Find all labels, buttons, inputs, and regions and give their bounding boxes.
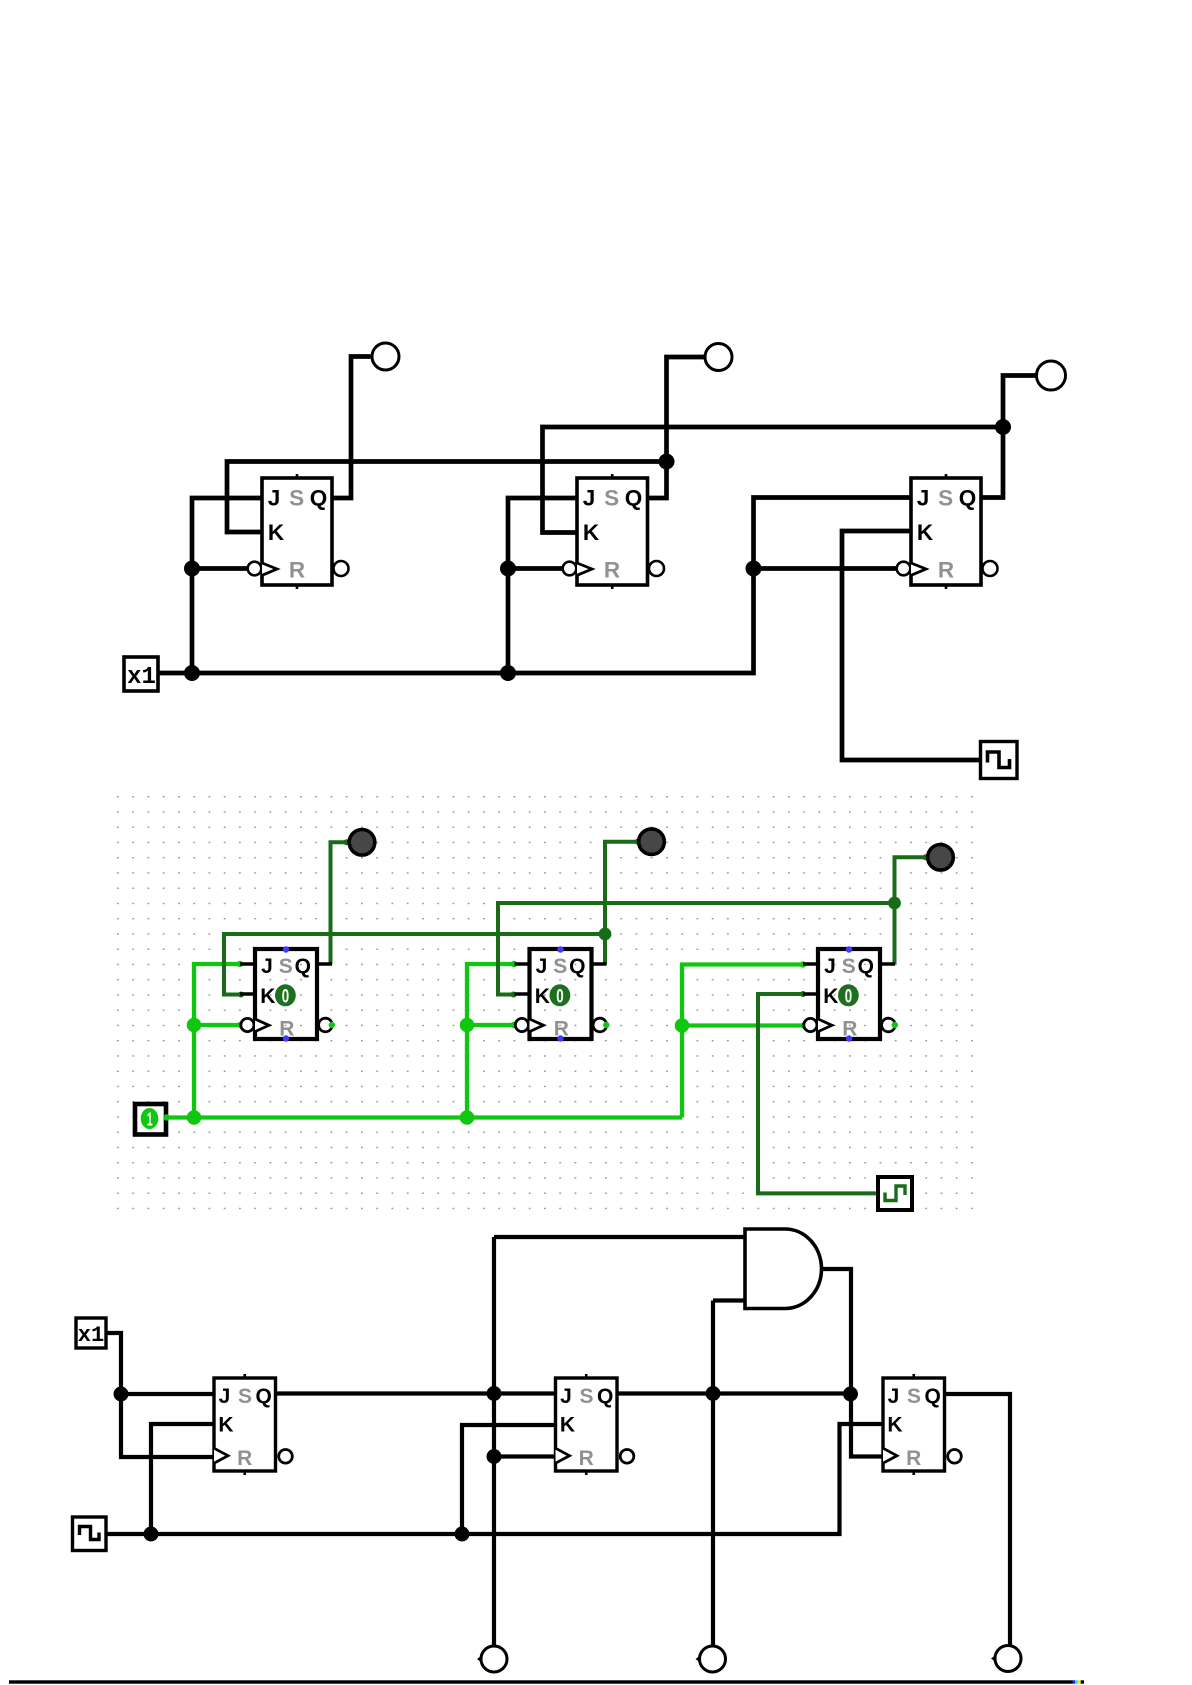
svg-text:S: S	[842, 955, 856, 978]
junction Q2m/K1m	[599, 928, 612, 941]
svg-text:R: R	[938, 558, 954, 583]
svg-text:K: K	[887, 1414, 902, 1437]
svg-text:K: K	[535, 985, 550, 1008]
input pin x1=1 (middle)	[135, 1104, 166, 1135]
wire J1 input (bottom)	[121, 1392, 214, 1396]
JK flip-flop FF1	[248, 474, 349, 589]
wire clock input FF2 (top)	[508, 566, 563, 571]
input pin x1 (bottom)	[76, 1318, 106, 1348]
junction clk1 branch	[184, 561, 200, 577]
clock source CLK (bottom)	[73, 1517, 107, 1551]
svg-text:K: K	[823, 985, 838, 1008]
svg-text:Q: Q	[625, 486, 643, 511]
output pin O2 (top)	[705, 344, 732, 371]
wire x1 rail to J3 (top)	[159, 498, 912, 674]
wire K1 to Q2 node (middle, value 0)	[224, 934, 605, 995]
wire Q2 up to output O2 and K1 junction (top)	[648, 357, 705, 498]
wire input rail value-1 (middle)	[166, 1115, 682, 1119]
JK flip-flop FF2	[563, 474, 664, 589]
wire AND output	[821, 1269, 883, 1457]
svg-text:R: R	[579, 1447, 594, 1470]
svg-text:S: S	[938, 486, 953, 511]
wire AND gate input 1 horizontal	[494, 1235, 745, 1239]
svg-text:R: R	[237, 1447, 252, 1470]
wire AND input 2 / output O2 vertical	[711, 1301, 715, 1646]
wire J1 feed (top)	[192, 498, 262, 673]
wire Q3 to output O3 (bottom)	[945, 1394, 1010, 1645]
svg-text:Q: Q	[256, 1385, 272, 1408]
JK flip-flop FF3m (middle, state 0)	[803, 946, 898, 1041]
wire K1 to Q2 node (top)	[227, 462, 667, 533]
junction clk3 branch	[746, 561, 762, 577]
wire Q2 node vertical (middle)	[605, 842, 638, 964]
svg-text:x1: x1	[78, 1323, 104, 1348]
svg-text:S: S	[579, 1385, 593, 1408]
junction K2/rail (bottom)	[455, 1527, 470, 1542]
output pin O3 (top)	[1037, 361, 1066, 390]
junction clk2m branch	[460, 1018, 475, 1033]
wire Q3 node vertical (middle)	[895, 857, 926, 964]
junction clk3m branch	[675, 1018, 690, 1033]
output probe O2m (dark circle)	[639, 829, 665, 855]
svg-text:K: K	[560, 1414, 575, 1437]
junction x1/J2 vertical	[500, 665, 516, 681]
clock source CLK (top)	[981, 742, 1018, 779]
junction Q2/K1 node	[659, 454, 675, 470]
svg-text:0: 0	[282, 985, 289, 1007]
output pin O1 (top)	[372, 343, 399, 370]
wire x1 to J1/clk1 (bottom)	[106, 1333, 214, 1457]
svg-text:J: J	[824, 955, 836, 978]
output pin O2 (bottom)	[696, 1646, 726, 1672]
wire K2 to Q3 node (top)	[543, 427, 1004, 533]
output pin O3 (bottom)	[991, 1646, 1021, 1672]
wire K2 to Q3 node (middle)	[498, 903, 895, 995]
output probe O3m (dark circle)	[928, 845, 954, 871]
wire clock input FF2m	[467, 1023, 514, 1027]
svg-text:J: J	[261, 955, 273, 978]
junction clk2 branch	[500, 561, 516, 577]
svg-text:R: R	[604, 558, 620, 583]
svg-text:K: K	[218, 1414, 233, 1437]
AND gate G1	[745, 1229, 822, 1309]
svg-text:S: S	[289, 486, 304, 511]
wire Q1 to output (middle)	[331, 842, 347, 964]
svg-text:x1: x1	[127, 664, 156, 691]
junction AND output / J3 / Q2	[843, 1387, 858, 1402]
svg-text:J: J	[268, 486, 281, 511]
svg-text:J: J	[219, 1385, 231, 1408]
output pin O1 (bottom)	[477, 1646, 507, 1672]
junction J2m rail	[460, 1110, 475, 1125]
svg-text:S: S	[553, 955, 567, 978]
JK flip-flop FF2m (middle, state 0)	[515, 946, 610, 1041]
junction K1/rail (bottom)	[144, 1527, 159, 1542]
wire J3 feed (middle)	[682, 965, 803, 1118]
svg-text:Q: Q	[858, 955, 874, 978]
JK flip-flop FF1b (bottom)	[214, 1374, 292, 1475]
wire clock input FF3m	[682, 1023, 804, 1027]
wire Q3 up to output O3 and K2 junction (top)	[981, 376, 1036, 498]
input pin x1 (top)	[124, 657, 158, 691]
wire Q2 to J3 (bottom)	[617, 1391, 851, 1395]
output probe O1m (dark circle)	[349, 830, 375, 856]
grid dots background	[117, 796, 974, 1211]
junction Q3/K2 node	[995, 419, 1011, 435]
junction clk2 branch (bottom)	[487, 1449, 502, 1464]
svg-text:K: K	[260, 985, 275, 1008]
wire clock input FF1 (top)	[192, 566, 248, 571]
svg-text:K: K	[268, 520, 285, 545]
svg-text:0: 0	[556, 985, 563, 1007]
svg-text:J: J	[917, 486, 930, 511]
svg-text:S: S	[238, 1385, 252, 1408]
svg-text:S: S	[604, 486, 619, 511]
junction Q1 node / AND input 1 drop	[487, 1386, 502, 1401]
JK flip-flop FF2b (bottom)	[556, 1374, 634, 1475]
junction x1/J1 (bottom)	[114, 1387, 129, 1402]
JK flip-flop FF3	[897, 474, 998, 589]
wire AND gate input 2 horizontal	[713, 1298, 745, 1302]
junction Q3m/K2m	[888, 897, 901, 910]
svg-text:Q: Q	[295, 955, 311, 978]
svg-text:K: K	[917, 520, 934, 545]
junction J1m rail	[187, 1110, 202, 1125]
svg-text:Q: Q	[310, 486, 328, 511]
clock rail to K3 (bottom)	[107, 1424, 884, 1534]
svg-text:S: S	[279, 955, 293, 978]
svg-text:J: J	[536, 955, 548, 978]
junction clk1m branch	[187, 1018, 202, 1033]
wire Q1 to output O1 (top)	[333, 357, 371, 499]
svg-text:R: R	[289, 558, 305, 583]
svg-text:J: J	[888, 1385, 900, 1408]
wire K3 to clock source (middle)	[758, 994, 879, 1193]
svg-text:Q: Q	[569, 955, 585, 978]
svg-text:1: 1	[147, 1109, 153, 1129]
svg-text:S: S	[907, 1385, 921, 1408]
JK flip-flop FF1m (middle, state 0)	[240, 946, 335, 1041]
window bottom border line	[9, 1680, 1084, 1683]
junction x1/J1 vertical	[184, 665, 200, 681]
wire K1 to clock rail (bottom)	[151, 1424, 214, 1534]
wire J2 feed (top)	[508, 498, 577, 673]
svg-text:Q: Q	[959, 486, 977, 511]
svg-text:Q: Q	[925, 1385, 941, 1408]
junction Q2 node / output O2 drop	[706, 1386, 721, 1401]
svg-text:J: J	[560, 1385, 572, 1408]
wire J1 feed (middle)	[194, 964, 240, 1118]
wire AND input 1 / output O1 vertical (bottom)	[492, 1237, 496, 1645]
svg-text:J: J	[583, 486, 596, 511]
wire clock input FF2 (bottom)	[494, 1454, 556, 1458]
wire clock input FF3 (top)	[754, 566, 897, 571]
svg-text:K: K	[583, 520, 600, 545]
wire K3 to clock source (top)	[842, 531, 981, 760]
svg-text:R: R	[906, 1447, 921, 1470]
JK flip-flop FF3b (bottom)	[883, 1374, 961, 1475]
wire clock input FF1m	[194, 1023, 241, 1027]
wire Q1 to J2 (bottom)	[276, 1391, 556, 1395]
svg-text:Q: Q	[597, 1385, 613, 1408]
clock source CLK (middle)	[878, 1177, 912, 1210]
wire K2 to clock rail (bottom)	[462, 1425, 556, 1534]
wire J2 feed (middle)	[467, 964, 514, 1118]
svg-text:0: 0	[845, 985, 852, 1007]
